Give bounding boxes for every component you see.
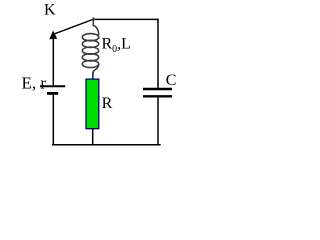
battery E short plate: [47, 92, 58, 95]
inductor coil loop 2: [82, 40, 98, 47]
svg-text:E, r: E, r: [22, 73, 47, 92]
svg-text:C: C: [166, 72, 177, 89]
wire bottom horizontal: [52, 144, 161, 146]
svg-text:R0,L: R0,L: [102, 35, 131, 55]
wire top horizontal: [93, 18, 159, 20]
wire right lower vertical: [157, 98, 159, 146]
svg-text:K: K: [44, 2, 56, 19]
capacitor C top plate: [143, 88, 172, 90]
wire left upper vertical: [52, 39, 54, 86]
battery E long plate: [40, 85, 65, 87]
switch K arrowhead: [49, 31, 57, 40]
capacitor C bottom plate: [143, 95, 172, 97]
inductor coil loop 4: [82, 54, 98, 61]
wire right upper vertical: [157, 19, 159, 89]
inductor coil tail: [93, 65, 99, 74]
inductor coil loop 5: [82, 60, 98, 67]
inductor coil lead from top node: [93, 17, 98, 35]
inductor coil loop 3: [82, 47, 98, 54]
inductor coil loop 1: [82, 34, 98, 41]
switch K blade: [55, 19, 93, 33]
resistor bottom lead: [92, 129, 94, 145]
coil to resistor connector: [92, 73, 94, 80]
resistor R body: [86, 79, 99, 129]
wire left lower vertical: [52, 95, 54, 146]
svg-text:R: R: [102, 95, 113, 112]
